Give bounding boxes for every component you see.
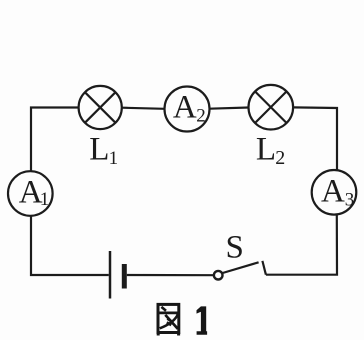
svg-text:A: A (321, 174, 345, 210)
svg-text:2: 2 (196, 106, 206, 127)
wire battery to bottom-left corner up to A1 (31, 216, 109, 275)
svg-text:1: 1 (109, 148, 119, 169)
ammeter A2 (165, 87, 210, 132)
svg-text:A: A (173, 90, 197, 126)
svg-text:L: L (89, 132, 109, 168)
ammeter A1 (8, 171, 53, 216)
wire switch to battery (127, 274, 214, 276)
svg-text:L: L (256, 132, 276, 168)
label A3 (321, 174, 354, 211)
label L2 (256, 132, 285, 169)
lamp L1 (79, 86, 122, 129)
switch S (214, 261, 266, 280)
label A1 (19, 174, 50, 210)
svg-text:S: S (226, 229, 244, 265)
svg-text:1: 1 (40, 189, 50, 210)
svg-text:3: 3 (345, 190, 355, 211)
battery cell (110, 251, 124, 299)
wire L2 to top-right corner down to A3 (293, 107, 337, 170)
caption 图 1 (158, 304, 207, 335)
lamp L2 (248, 85, 293, 130)
svg-text:2: 2 (275, 147, 285, 169)
label A2 (173, 90, 206, 127)
wire A3 to bottom-right corner (266, 214, 337, 274)
wire A2 to L2 (210, 108, 249, 109)
ammeter A3 (312, 170, 357, 215)
wire L1 to A2 (122, 108, 165, 109)
wire top-left corner to lamp L1 (31, 108, 79, 171)
label L1 (89, 132, 118, 169)
